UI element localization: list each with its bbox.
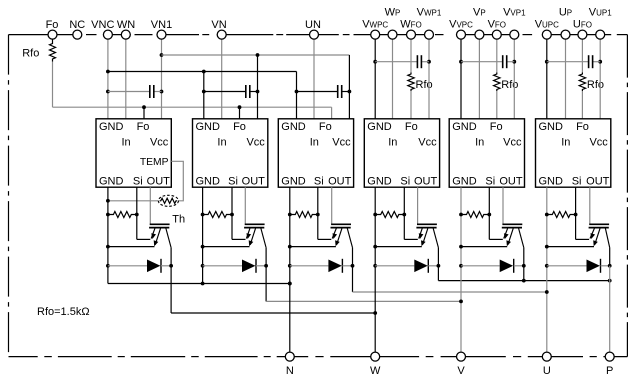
wire collector route section 6 — [609, 248, 611, 357]
wire Fo stub to U2 with junction — [238, 105, 242, 119]
terminal NC — [73, 30, 82, 39]
diode D5 (freewheel diode, section 5) — [461, 259, 526, 273]
svg-text:Fo: Fo — [46, 19, 59, 31]
wire VUPC line (terminal to U6 GND) — [545, 39, 549, 119]
wire VNC line (terminal to U1 GND) — [106, 39, 110, 119]
svg-text:Rfo=1.5kΩ: Rfo=1.5kΩ — [37, 306, 90, 318]
svg-text:OUT: OUT — [328, 175, 352, 187]
diode D4 (freewheel diode, section 4) — [375, 259, 440, 273]
wire thermistor to GND with junction — [106, 199, 158, 203]
svg-text:Si: Si — [314, 175, 324, 187]
svg-text:VNC: VNC — [91, 19, 114, 31]
terminal WP — [388, 30, 397, 39]
wire VUP1 line (terminal to U6 Vcc) — [598, 39, 602, 119]
terminal U — [542, 352, 551, 361]
wire section 4 emitter to bus — [375, 246, 422, 248]
svg-text:GND: GND — [452, 121, 477, 133]
svg-text:Vcc: Vcc — [246, 136, 265, 148]
wire Si sense line section 5 — [489, 187, 503, 239]
svg-text:Fo: Fo — [319, 121, 332, 133]
label VP — [473, 7, 486, 19]
wire UN line (terminal to U3 In) — [313, 39, 315, 119]
svg-text:GND: GND — [539, 121, 564, 133]
label UP — [559, 7, 572, 19]
svg-text:GND: GND — [452, 175, 477, 187]
svg-text:N: N — [286, 365, 294, 377]
resistor R3 (gate-emitter resistor, section 3) — [290, 212, 320, 218]
svg-text:OUT: OUT — [242, 175, 266, 187]
wire section 3 emitter/GND bus — [288, 187, 292, 356]
terminal VFO — [492, 30, 501, 39]
svg-text:Vcc: Vcc — [503, 136, 522, 148]
diode D6 (freewheel diode, section 6) — [547, 259, 612, 273]
wire Fo bus (Rfo to low-side Fo pins) — [53, 62, 332, 119]
wire section 6 emitter to bus — [547, 246, 594, 248]
wire Fo terminal drop — [52, 39, 54, 41]
terminal W — [371, 352, 380, 361]
label WFO — [400, 19, 422, 31]
wire Si sense line section 4 — [404, 187, 418, 239]
diode D1 (freewheel diode, section 1) — [108, 259, 173, 273]
terminal UN — [310, 30, 319, 39]
label WP — [385, 7, 401, 19]
wire VWP1 line (terminal to U4 Vcc) — [427, 39, 431, 119]
svg-text:W: W — [370, 365, 381, 377]
svg-text:WFO: WFO — [400, 19, 422, 31]
terminal VNC — [103, 30, 112, 39]
wire collector route section 4 — [438, 248, 611, 283]
wire N bus (low-side emitters common) — [108, 282, 292, 286]
svg-text:GND: GND — [281, 121, 306, 133]
terminal Fo — [48, 30, 57, 39]
svg-text:In: In — [561, 136, 570, 148]
svg-text:WN: WN — [117, 19, 135, 31]
svg-text:Vcc: Vcc — [589, 136, 608, 148]
wire section 1 emitter to bus — [108, 246, 155, 248]
wire OUT gate line section 5 — [502, 187, 504, 223]
svg-text:VUP1: VUP1 — [589, 7, 612, 19]
label VFO — [488, 19, 506, 31]
wire section 3 emitter to bus — [290, 246, 336, 248]
thermistor Th — [158, 195, 178, 206]
svg-text:Rfo: Rfo — [501, 79, 518, 91]
label VUPC — [535, 19, 559, 31]
svg-text:OUT: OUT — [147, 175, 171, 187]
svg-text:OUT: OUT — [499, 175, 523, 187]
terminal VVP1 — [510, 30, 519, 39]
wire OUT gate line section 6 — [589, 187, 591, 223]
svg-text:Vcc: Vcc — [418, 136, 437, 148]
resistor Rfo (fault output pull-up) — [50, 41, 56, 62]
wire section 2 emitter/GND bus — [201, 187, 205, 285]
wire WN line (terminal to U1 In) — [125, 39, 127, 119]
svg-text:WP: WP — [385, 7, 401, 19]
resistor R5 (gate-emitter resistor, section 5) — [461, 212, 491, 218]
terminal VN — [217, 30, 226, 39]
svg-text:Fo: Fo — [233, 121, 246, 133]
svg-text:GND: GND — [196, 175, 221, 187]
transistor Q2 (V low-side IGBT) — [244, 224, 266, 247]
svg-text:Rfo: Rfo — [22, 48, 39, 60]
svg-text:VFO: VFO — [488, 19, 506, 31]
svg-text:NC: NC — [69, 19, 85, 31]
driver IC U6 (U high-side driver) — [536, 119, 611, 188]
wire UP line (terminal to U6 In) — [565, 39, 567, 119]
terminal UP — [561, 30, 570, 39]
diode D3 (freewheel diode, section 3) — [290, 259, 355, 273]
transistor Q3 (U low-side IGBT) — [331, 224, 353, 247]
package outline bottom border — [9, 356, 628, 358]
resistor Rfo (section 6 fault pull-up) — [579, 73, 585, 92]
svg-text:In: In — [388, 136, 397, 148]
label VUP1 — [589, 7, 612, 19]
svg-text:V: V — [457, 365, 465, 377]
capacitor C5 (section 5 bootstrap supply decoupling) — [461, 55, 514, 68]
wire section 4 emitter/GND bus — [373, 187, 377, 356]
svg-text:VVP1: VVP1 — [503, 7, 526, 19]
wire collector route section 5 — [523, 248, 525, 281]
terminal VWPC — [371, 30, 380, 39]
terminal VVPC — [457, 30, 466, 39]
wire section 5 emitter to bus — [461, 246, 507, 248]
wire section 1 emitter/GND bus — [106, 187, 110, 283]
wire WFO line (terminal to U4 Fo) — [410, 39, 412, 119]
svg-text:Vcc: Vcc — [332, 136, 351, 148]
diode D2 (freewheel diode, section 2) — [203, 259, 268, 273]
svg-text:In: In — [217, 136, 226, 148]
wire OUT gate line section 2 — [244, 187, 246, 223]
driver IC U3 (U low-side driver) — [278, 119, 353, 188]
resistor R2 (gate-emitter resistor, section 2) — [203, 212, 234, 218]
resistor R6 (gate-emitter resistor, section 6) — [547, 212, 578, 218]
capacitor C4 (section 4 bootstrap supply decoupling) — [375, 55, 429, 68]
svg-text:Fo: Fo — [137, 121, 150, 133]
svg-text:U: U — [543, 365, 551, 377]
svg-text:GND: GND — [99, 175, 124, 187]
wire WP line (terminal to U4 In) — [392, 39, 394, 119]
wire VFO line (terminal to U5 Fo) — [496, 39, 498, 119]
capacitor C1 (VNC-VN1 decoupling, section W-low) — [108, 85, 162, 98]
wire Si sense line section 2 — [232, 187, 246, 239]
terminal VUPC — [542, 30, 551, 39]
wire TEMP output (U1 to thermistor) — [171, 161, 183, 201]
label VVPC — [449, 19, 473, 31]
svg-text:OUT: OUT — [414, 175, 438, 187]
terminal V — [457, 352, 466, 361]
transistor Q5 (V high-side IGBT) — [502, 224, 524, 247]
capacitor C2 (section V-low decoupling) — [204, 85, 258, 98]
svg-text:Si: Si — [400, 175, 410, 187]
svg-text:Rfo: Rfo — [416, 79, 433, 91]
wire OUT gate line section 3 — [331, 187, 333, 223]
svg-text:GND: GND — [281, 175, 306, 187]
svg-text:Si: Si — [485, 175, 495, 187]
svg-text:Th: Th — [172, 214, 185, 226]
driver IC U1 (W low-side driver) — [96, 119, 171, 188]
terminal WFO — [407, 30, 416, 39]
resistor Rfo (section 5 fault pull-up) — [494, 73, 500, 92]
driver IC U2 (V low-side driver) — [193, 119, 268, 188]
wire VVPC line (terminal to U5 GND) — [459, 39, 463, 119]
label VWPC — [362, 19, 388, 31]
svg-text:P: P — [606, 365, 613, 377]
svg-text:In: In — [310, 136, 319, 148]
svg-text:VN: VN — [211, 19, 226, 31]
svg-text:VN1: VN1 — [151, 19, 172, 31]
resistor R4 (gate-emitter resistor, section 4) — [375, 212, 406, 218]
svg-text:UN: UN — [305, 19, 321, 31]
terminal N — [285, 352, 294, 361]
driver IC U4 (W high-side driver) — [364, 119, 439, 188]
wire collector route section 2 — [266, 248, 461, 302]
wire section 5 emitter/GND bus — [459, 187, 463, 356]
wire VP line (terminal to U5 In) — [478, 39, 480, 119]
terminal VUP1 — [596, 30, 605, 39]
wire OUT gate line section 1 — [149, 187, 151, 223]
svg-text:Rfo: Rfo — [587, 79, 604, 91]
wire Si sense line section 1 — [137, 187, 151, 239]
svg-text:Fo: Fo — [576, 121, 589, 133]
wire Si sense line section 6 — [576, 187, 590, 239]
wire low-side GND bus (VNC to U2,U3 GND) — [108, 70, 299, 119]
wire section 2 emitter to bus — [203, 246, 250, 248]
wire VVP1 line (terminal to U5 Vcc) — [512, 39, 516, 119]
wire UFO line (terminal to U6 Fo) — [581, 39, 583, 119]
terminal VN1 — [157, 30, 166, 39]
svg-text:GND: GND — [99, 121, 124, 133]
wire low-side Vcc bus (VN1 to U2,U3 Vcc) — [162, 53, 352, 119]
svg-text:TEMP: TEMP — [140, 157, 169, 168]
capacitor C3 (section U-low decoupling) — [297, 85, 350, 98]
svg-text:Si: Si — [572, 175, 582, 187]
svg-text:Si: Si — [133, 175, 143, 187]
svg-text:Fo: Fo — [405, 121, 418, 133]
svg-text:VP: VP — [473, 7, 486, 19]
svg-text:Vcc: Vcc — [150, 136, 169, 148]
svg-text:VVPC: VVPC — [449, 19, 473, 31]
transistor Q4 (W high-side IGBT) — [416, 224, 438, 247]
wire Fo stub to U1 with junction — [142, 105, 146, 119]
svg-text:GND: GND — [539, 175, 564, 187]
wire VN1 line (terminal to U1 Vcc) — [160, 39, 164, 119]
label VVP1 — [503, 7, 526, 19]
svg-text:Fo: Fo — [490, 121, 503, 133]
svg-text:GND: GND — [367, 121, 392, 133]
wire Si sense line section 3 — [318, 187, 332, 239]
svg-text:VUPC: VUPC — [535, 19, 559, 31]
label UFO — [573, 19, 592, 31]
terminal UFO — [578, 30, 587, 39]
svg-text:Si: Si — [228, 175, 238, 187]
svg-text:UP: UP — [559, 7, 572, 19]
wire VWPC line (terminal to U4 GND) — [373, 39, 377, 119]
package outline right border — [626, 35, 628, 357]
svg-text:UFO: UFO — [573, 19, 592, 31]
wire section 6 emitter/GND bus — [545, 187, 549, 356]
package outline top border — [9, 34, 628, 36]
transistor Q6 (U high-side IGBT) — [589, 224, 610, 247]
terminal WN — [121, 30, 130, 39]
resistor Rfo (section 4 fault pull-up) — [408, 73, 414, 92]
wire VN line (terminal to U2 In) — [221, 39, 223, 119]
transistor Q1 (W low-side IGBT) — [149, 224, 171, 247]
terminal P — [605, 352, 614, 361]
svg-text:VWP1: VWP1 — [417, 7, 442, 19]
capacitor C6 (section 6 bootstrap supply decoupling) — [547, 55, 600, 68]
driver IC U5 (V high-side driver) — [449, 119, 524, 188]
svg-text:OUT: OUT — [586, 175, 610, 187]
svg-text:GND: GND — [196, 121, 221, 133]
wire collector route section 3 — [353, 248, 547, 292]
wire collector route section 1 — [171, 248, 375, 313]
svg-text:GND: GND — [367, 175, 392, 187]
package outline left border — [8, 35, 10, 357]
svg-text:In: In — [122, 136, 131, 148]
terminal VP — [475, 30, 484, 39]
wire OUT gate line section 4 — [417, 187, 419, 223]
svg-text:In: In — [475, 136, 484, 148]
terminal VWP1 — [425, 30, 434, 39]
svg-text:VWPC: VWPC — [362, 19, 388, 31]
label VWP1 — [417, 7, 442, 19]
resistor R1 (gate-emitter resistor, section 1) — [108, 212, 139, 218]
